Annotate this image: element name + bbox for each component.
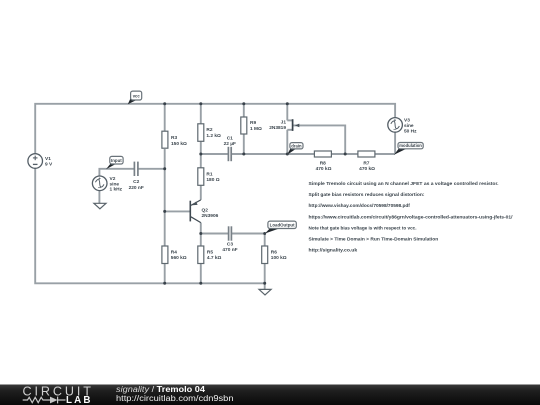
wire LoadOutput node to R6 top: [264, 234, 266, 246]
capacitor C2 220nF: [134, 162, 138, 176]
svg-text:C3: C3: [227, 241, 233, 247]
wire V2 bottom to ground symbol: [98, 191, 100, 204]
wire J1 gate to R8-R7 junction: [293, 125, 345, 154]
wire R7 right to modulation node: [375, 153, 395, 155]
wire J1 source lead horizontal: [287, 129, 292, 131]
label C3 470 nF: [222, 241, 237, 253]
resistor R8 470k: [314, 151, 331, 157]
svg-text:LAB: LAB: [66, 395, 91, 405]
flag drain: [287, 143, 303, 155]
junction node A at C2 output: [163, 167, 166, 170]
wire top rail to R3 top: [164, 104, 166, 131]
wire R2 bottom to node B: [200, 141, 202, 154]
CircuitLab logo resistor-diode squiggle: [23, 397, 66, 404]
notes text block: [309, 181, 514, 254]
junction R9 bottom on drain net: [242, 153, 245, 156]
svg-text:https://www.circuitlab.com/cir: https://www.circuitlab.com/circuit/y86gr…: [309, 214, 514, 220]
svg-text:2N3819: 2N3819: [269, 125, 286, 131]
label R3 150 kOhm: [171, 135, 187, 147]
label R4 560 kOhm: [171, 249, 187, 261]
svg-text:R5: R5: [207, 249, 213, 255]
wire V2 top to C2 left plate (Input net): [99, 169, 134, 176]
svg-text:V1: V1: [45, 156, 51, 162]
svg-text:J1: J1: [281, 119, 287, 125]
resistor R1 180 Ohm: [198, 168, 204, 186]
svg-text:9 V: 9 V: [45, 161, 53, 167]
wire Q2 collector down to R5 top: [200, 223, 202, 246]
wire top rail to J1 drain lead: [286, 104, 288, 121]
wire C2 right plate to node A: [138, 168, 165, 170]
wire V3 bottom to modulation node: [394, 132, 396, 154]
svg-text:220 nF: 220 nF: [129, 185, 144, 191]
svg-text:R4: R4: [171, 249, 177, 255]
svg-text:470 nF: 470 nF: [222, 247, 237, 253]
wire R4 bottom to ground rail: [164, 264, 166, 284]
sine source V3: [388, 118, 403, 133]
label V1 9 V: [45, 156, 53, 167]
junction R6 top of ground symbol: [263, 282, 266, 285]
svg-text:1.2 kΩ: 1.2 kΩ: [206, 133, 221, 139]
svg-text:R3: R3: [171, 135, 177, 141]
svg-text:http://www.vishay.com/docs/705: http://www.vishay.com/docs/70598/70598.p…: [309, 203, 411, 209]
junction J1 source on drain net: [286, 153, 289, 156]
label R8 470 kOhm: [316, 161, 332, 173]
wire J1 drain lead horizontal: [287, 119, 292, 121]
resistor R3 150k: [162, 131, 168, 148]
wire R9 bottom to drain net: [243, 134, 245, 154]
svg-text:R9: R9: [250, 120, 256, 126]
resistor R2 1.2k: [198, 124, 204, 142]
wire top rail to R9 top: [243, 104, 245, 117]
wire J1 source down to drain net: [286, 130, 288, 154]
flag Input: [106, 156, 123, 169]
svg-text:R8: R8: [320, 161, 326, 167]
svg-text:50 Hz: 50 Hz: [404, 129, 417, 135]
svg-text:V2: V2: [110, 176, 116, 182]
svg-text:Simple Tremolo circuit using a: Simple Tremolo circuit using an N channe…: [309, 181, 499, 187]
wire R8 right to R7 left: [331, 153, 358, 155]
junction LoadOutput node at R6 top: [263, 232, 266, 235]
junction J1 drain on vcc rail: [286, 102, 289, 105]
svg-text:150 kΩ: 150 kΩ: [171, 141, 187, 147]
label V2 sine 1 kHz: [110, 176, 123, 193]
sine source V2: [92, 176, 107, 191]
label R2 1.2 kOhm: [206, 127, 221, 139]
junction Q2 collector at C3: [199, 232, 202, 235]
flag vcc: [128, 91, 142, 104]
wire collector node to C3 left plate: [201, 233, 229, 235]
resistor R6 100k: [262, 246, 268, 264]
ground below R6: [259, 289, 271, 295]
junction R4 bottom on ground rail: [163, 282, 166, 285]
wire node B to R1 top: [200, 154, 202, 168]
junction R5 bottom on ground rail: [199, 282, 202, 285]
svg-text:R2: R2: [206, 127, 212, 133]
label R9 1 MOhm: [250, 120, 262, 132]
svg-text:22 µF: 22 µF: [224, 141, 236, 147]
wire top rail to R2 top: [200, 104, 202, 124]
svg-text:Q2: Q2: [202, 208, 209, 214]
svg-text:sine: sine: [110, 181, 120, 187]
junction node B R2-R1-C1: [199, 153, 202, 156]
svg-text:V3: V3: [404, 117, 410, 123]
capacitor C3 470nF: [229, 226, 232, 240]
resistor R9 1M: [241, 117, 247, 134]
svg-text:1 MΩ: 1 MΩ: [250, 126, 262, 132]
svg-text:Split gate bias resistors redu: Split gate bias resistors reduces signal…: [309, 192, 425, 198]
label R5 4.7 kOhm: [207, 249, 222, 261]
svg-text:drain: drain: [291, 143, 302, 148]
svg-text:C1: C1: [227, 135, 233, 141]
svg-text:R6: R6: [271, 249, 277, 255]
label R6 100 kOhm: [271, 249, 287, 261]
label J1 2N3819: [269, 119, 286, 131]
svg-text:C2: C2: [133, 179, 139, 185]
resistor R4 560k: [162, 246, 168, 264]
ground below V2: [94, 203, 106, 209]
wire node B to C1 left plate: [201, 153, 228, 155]
svg-text:vcc: vcc: [133, 93, 141, 98]
svg-text:2N3906: 2N3906: [202, 213, 219, 219]
label R1 180 Ohm: [206, 171, 219, 183]
wire C1 right plate to R8 left (drain net): [231, 153, 314, 155]
junction gate return between R8 and R7: [344, 153, 347, 156]
svg-text:http://signality.co.uk: http://signality.co.uk: [309, 248, 358, 254]
svg-text:sine: sine: [404, 123, 414, 129]
resistor R5 4.7k: [198, 246, 204, 264]
wire node A to Q2 base: [165, 210, 191, 212]
JFET J1 2N3819: [293, 119, 300, 131]
svg-text:Note that gate bias voltage is: Note that gate bias voltage is with resp…: [309, 225, 417, 231]
transistor Q2 2N3906 PNP: [190, 200, 201, 223]
wire vcc top rail from V1 top to V3 column: [35, 104, 395, 154]
wire R6 bottom to ground symbol: [264, 264, 266, 290]
wire C3 right plate to LoadOutput node: [232, 233, 265, 235]
wire R5 bottom to ground rail: [200, 264, 202, 284]
svg-text:4.7 kΩ: 4.7 kΩ: [207, 255, 222, 261]
label R7 470 kOhm: [359, 161, 375, 173]
svg-text:470 kΩ: 470 kΩ: [316, 166, 332, 172]
label Q2 2N3906: [202, 208, 219, 220]
flag modulation: [394, 143, 423, 155]
svg-text:LoadOutput: LoadOutput: [270, 223, 295, 228]
svg-text:100 kΩ: 100 kΩ: [271, 255, 287, 261]
svg-text:470 kΩ: 470 kΩ: [359, 166, 375, 172]
capacitor C1 22uF: [228, 147, 231, 161]
junction node A at Q2 base wire: [163, 210, 166, 213]
svg-text:R1: R1: [206, 171, 212, 177]
resistor R7 470k: [358, 151, 375, 157]
svg-text:modulation: modulation: [399, 143, 422, 148]
label C1 22 uF: [224, 135, 236, 147]
wire R3 bottom to R4 top (node A column): [164, 149, 166, 246]
svg-text:signality / Tremolo 04: signality / Tremolo 04: [116, 385, 206, 394]
label V3 sine 50 Hz: [404, 117, 417, 134]
svg-text:Simulate > Time Domain > Run T: Simulate > Time Domain > Run Time-Domain…: [309, 237, 439, 243]
svg-text:http://circuitlab.com/cdn9sbn: http://circuitlab.com/cdn9sbn: [116, 394, 234, 403]
junction R2 top on vcc rail: [199, 102, 202, 105]
wire R1 bottom to Q2 emitter: [200, 186, 202, 200]
svg-text:1 kHz: 1 kHz: [110, 187, 123, 193]
svg-text:R7: R7: [363, 161, 369, 167]
svg-text:180 Ω: 180 Ω: [206, 177, 219, 183]
junction R9 top on vcc rail: [242, 102, 245, 105]
svg-text:Input: Input: [111, 158, 122, 163]
svg-text:560 kΩ: 560 kΩ: [171, 255, 187, 261]
junction R3 top on vcc rail: [163, 102, 166, 105]
flag LoadOutput: [265, 221, 296, 233]
label C2 220 nF: [129, 179, 144, 191]
voltage source V1 9V: [28, 154, 43, 169]
wire ground rail from V1 bottom to R6 bottom: [35, 168, 265, 283]
